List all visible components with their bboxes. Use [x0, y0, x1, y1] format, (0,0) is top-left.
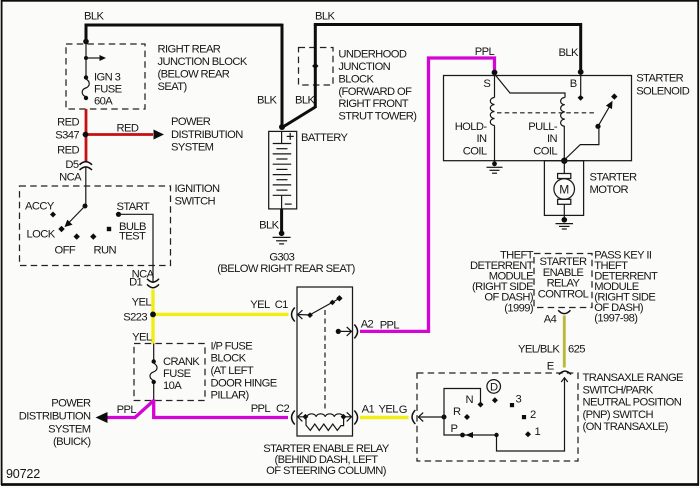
node S terminal	[483, 70, 497, 90]
svg-text:PILLAR): PILLAR)	[211, 390, 250, 402]
svg-text:R: R	[453, 406, 461, 418]
svg-text:(1997-98): (1997-98)	[594, 312, 638, 324]
PNP switch dashed box	[417, 373, 578, 461]
wire YEL from S223 to relay C1	[153, 313, 289, 316]
svg-text:SWITCH/PARK: SWITCH/PARK	[583, 384, 654, 396]
svg-text:A2: A2	[361, 318, 374, 330]
svg-text:N: N	[466, 394, 474, 406]
svg-text:G: G	[399, 404, 407, 416]
underhood junction block dashed box	[299, 48, 334, 86]
relay switch lever	[311, 299, 340, 315]
wire BLK battery to ground	[280, 209, 283, 232]
wire BLK top left horizontal and down to junction block	[86, 25, 282, 42]
node branch dot in junction block	[84, 56, 88, 60]
svg-text:BLK: BLK	[84, 10, 104, 22]
label IGN 3 FUSE 60A	[94, 72, 122, 108]
fuse CRANK FUSE 10A	[150, 344, 157, 401]
svg-text:DOOR HINGE: DOOR HINGE	[211, 377, 277, 389]
ignition switch lever	[65, 204, 88, 228]
svg-text:PPL: PPL	[475, 46, 495, 58]
starter enable relay box	[297, 287, 353, 436]
svg-text:YEL/BLK: YEL/BLK	[518, 343, 560, 355]
svg-text:TEST: TEST	[119, 231, 146, 243]
contact N	[478, 402, 484, 408]
svg-text:G303: G303	[269, 251, 294, 263]
svg-text:IN: IN	[547, 133, 558, 145]
label STARTER ENABLE RELAY CONTROL	[538, 256, 589, 301]
connector D1	[129, 276, 159, 288]
starter solenoid box	[444, 76, 632, 161]
label BULB TEST	[119, 221, 146, 243]
svg-text:LOCK: LOCK	[27, 229, 56, 241]
label RIGHT REAR JUNCTION BLOCK (BELOW REAR SEAT)	[158, 44, 248, 94]
svg-text:B: B	[570, 78, 577, 90]
wire PPL from relay A2 up and over to solenoid S	[360, 58, 495, 331]
svg-text:CONTROL: CONTROL	[538, 288, 589, 300]
svg-text:NEUTRAL POSITION: NEUTRAL POSITION	[583, 397, 682, 409]
svg-text:RIGHT REAR: RIGHT REAR	[158, 44, 221, 56]
fuse IGN 3 FUSE 60A	[82, 75, 89, 100]
hold-in coil	[490, 74, 494, 161]
svg-text:PPL: PPL	[117, 404, 137, 416]
relay coil arrow at C2	[298, 412, 303, 421]
svg-text:MOTOR: MOTOR	[590, 184, 629, 196]
svg-text:OFF: OFF	[55, 245, 76, 257]
svg-text:SYSTEM: SYSTEM	[171, 141, 214, 153]
svg-text:DISTRIBUTION: DISTRIBUTION	[19, 411, 91, 423]
dashed linkage line in solenoid	[497, 112, 597, 114]
relay switch contact mid	[330, 300, 336, 306]
label YEL/BLK 625	[518, 343, 585, 355]
svg-text:CRANK: CRANK	[163, 356, 200, 368]
label CRANK FUSE 10A	[163, 356, 200, 392]
connector A1	[354, 411, 357, 425]
svg-text:TRANSAXLE RANGE: TRANSAXLE RANGE	[583, 372, 684, 384]
label G303 (BELOW RIGHT REAR SEAT)	[217, 251, 355, 275]
svg-text:OF STEERING COLUMN): OF STEERING COLUMN)	[266, 465, 387, 477]
svg-text:P: P	[451, 423, 458, 435]
relay coil resistor	[306, 418, 344, 430]
svg-text:YEL: YEL	[132, 297, 152, 309]
svg-text:A4: A4	[544, 314, 557, 326]
svg-text:S: S	[483, 78, 490, 90]
wire YEL from S223 down to crank fuse	[151, 314, 154, 343]
svg-text:S223: S223	[123, 312, 147, 324]
wire BLK battery feed vertical from top wire to battery	[281, 24, 284, 128]
svg-text:I/P FUSE: I/P FUSE	[211, 340, 253, 352]
svg-text:YEL: YEL	[250, 299, 270, 311]
node S223	[123, 312, 147, 324]
contact OFF	[74, 233, 80, 239]
svg-text:BLK: BLK	[315, 10, 335, 22]
svg-text:PULL-: PULL-	[528, 121, 558, 133]
ground below starter motor	[556, 217, 574, 229]
wire B to switch contact	[580, 74, 582, 95]
label POWER DISTRIBUTION SYSTEM (BUICK)	[19, 398, 92, 449]
wire from S to pull-in coil	[495, 74, 566, 98]
svg-text:(BELOW RIGHT REAR SEAT): (BELOW RIGHT REAR SEAT)	[217, 263, 355, 275]
svg-text:(ON TRANSAXLE): (ON TRANSAXLE)	[583, 421, 669, 433]
dashed linkage in relay	[324, 310, 326, 412]
label A1 YEL G	[362, 403, 407, 416]
relay coil left contact	[303, 414, 309, 420]
svg-text:(BELOW REAR: (BELOW REAR	[158, 69, 230, 81]
svg-text:BLK: BLK	[559, 47, 579, 59]
svg-text:RIGHT FRONT: RIGHT FRONT	[338, 98, 408, 110]
svg-text:BATTERY: BATTERY	[301, 132, 348, 144]
contact START	[116, 212, 121, 217]
label TRANSAXLE RANGE SWITCH/PARK NEUTRAL POSITION (PNP) SWITCH (ON TRANSAXLE)	[583, 372, 684, 433]
label STARTER ENABLE RELAY (BEHIND DASH, LEFT OF STEERING COLUMN)	[263, 443, 390, 477]
svg-text:ACCY: ACCY	[25, 200, 55, 212]
svg-text:RED: RED	[117, 123, 139, 135]
svg-text:BLOCK: BLOCK	[211, 353, 247, 365]
node junction above battery	[279, 124, 285, 130]
contact D	[492, 397, 498, 403]
connector G	[412, 410, 415, 424]
wire BLK through underhood junction block down to battery	[282, 25, 315, 128]
relay switch contact end	[336, 295, 342, 301]
svg-text:UNDERHOOD: UNDERHOOD	[338, 49, 406, 61]
svg-text:625: 625	[568, 343, 585, 355]
node contact in underhood junction block	[312, 63, 318, 69]
svg-text:D1: D1	[129, 276, 142, 288]
wire YEL from D1 to S223	[151, 290, 154, 315]
contact P wiper arrow	[460, 432, 473, 438]
wire from START contact down to D1	[119, 214, 154, 283]
svg-text:C2: C2	[276, 403, 289, 415]
svg-text:10A: 10A	[163, 380, 182, 392]
solenoid switch lever with arrow	[595, 101, 612, 129]
svg-text:SEAT): SEAT)	[158, 81, 188, 93]
label IGNITION SWITCH	[175, 183, 220, 208]
svg-text:SWITCH: SWITCH	[175, 196, 216, 208]
ground G303	[273, 231, 291, 244]
junction block internal wire down to fuse	[85, 42, 87, 78]
relay switch contact near C1	[307, 312, 313, 318]
wire RED branch to power distribution system	[88, 130, 164, 140]
arrow to E inside PNP box	[561, 378, 568, 382]
node G junction on PNP ladder	[442, 415, 447, 420]
label PASS KEY II THEFT DETERRENT MODULE (RIGHT SIDE OF DASH) (1997-98)	[594, 249, 658, 324]
wire from switch pivot to motor node	[564, 126, 599, 160]
node B terminal	[570, 69, 584, 90]
ground below hold-in coil	[487, 161, 503, 174]
svg-text:SYSTEM: SYSTEM	[48, 424, 91, 436]
svg-text:A1: A1	[362, 403, 375, 415]
svg-text:D: D	[490, 382, 498, 394]
label POWER DISTRIBUTION SYSTEM	[171, 116, 243, 153]
pull-in coil	[561, 98, 565, 161]
contact LOCK	[58, 226, 64, 232]
svg-text:JUNCTION BLOCK: JUNCTION BLOCK	[158, 56, 248, 68]
wire PPL from crank fuse to relay C2	[154, 400, 288, 418]
svg-text:M: M	[559, 183, 569, 197]
contact 2	[522, 415, 526, 419]
wire BLK top right horizontal from underhood JB to solenoid B	[315, 25, 580, 73]
svg-text:STARTER: STARTER	[590, 171, 637, 183]
svg-text:BLOCK: BLOCK	[338, 73, 374, 85]
starter motor box	[544, 161, 583, 216]
svg-text:C1: C1	[275, 299, 288, 311]
contact BULB TEST	[107, 227, 111, 231]
contact R	[464, 414, 470, 420]
svg-text:POWER: POWER	[171, 116, 211, 128]
contact below B	[578, 95, 584, 101]
contact RUN	[90, 233, 96, 239]
wire PPL branch to power distribution (buick)	[96, 401, 154, 424]
svg-text:NCA: NCA	[59, 171, 82, 183]
svg-text:COIL: COIL	[533, 146, 557, 158]
svg-text:(1999): (1999)	[504, 302, 534, 314]
svg-text:RUN: RUN	[94, 245, 117, 257]
svg-text:HOLD-: HOLD-	[455, 121, 488, 133]
svg-text:RED: RED	[57, 145, 79, 157]
svg-text:(FORWARD OF: (FORWARD OF	[338, 86, 412, 98]
connector A2	[354, 325, 357, 339]
svg-text:BLK: BLK	[295, 94, 315, 106]
node S223 junction dot	[150, 312, 156, 318]
connector A4	[544, 310, 571, 325]
svg-text:SOLENOID: SOLENOID	[636, 85, 690, 97]
label A2 PPL	[361, 318, 400, 331]
label UNDERHOOD JUNCTION BLOCK (FORWARD OF RIGHT FRONT STRUT TOWER)	[338, 49, 417, 123]
wire G entry with arrow	[418, 413, 444, 422]
contact 1	[525, 431, 531, 437]
connector C2	[292, 411, 295, 425]
node junction dot above right rear junction block	[83, 39, 89, 45]
PNP inner ladder top	[444, 389, 481, 418]
svg-text:D5: D5	[65, 159, 78, 171]
svg-text:IGN 3: IGN 3	[94, 72, 121, 84]
node S347	[55, 129, 79, 141]
svg-text:YEL: YEL	[379, 403, 399, 415]
svg-text:YEL: YEL	[132, 332, 152, 344]
node pull-in coil and motor junction	[561, 158, 567, 164]
connector C1	[292, 308, 295, 322]
right rear junction block dashed box	[66, 44, 145, 109]
connector D5	[65, 159, 92, 171]
wire YEL/BLK from A4 to E	[563, 316, 566, 368]
node S347 junction dot	[83, 132, 89, 138]
wire YEL relay A1 to PNP G	[360, 416, 409, 419]
svg-text:POWER: POWER	[51, 398, 91, 410]
PNP inner ladder bottom	[444, 378, 565, 451]
connector E	[547, 360, 571, 374]
label THEFT DETERRENT MODULE (RIGHT SIDE OF DASH) (1999)	[470, 249, 534, 314]
svg-text:1: 1	[535, 426, 541, 438]
label D circled	[487, 380, 501, 394]
svg-text:COIL: COIL	[463, 146, 487, 158]
battery	[269, 131, 297, 209]
label YEL C1	[250, 299, 288, 311]
relay switch arrow at C1	[298, 310, 308, 319]
svg-text:(AT LEFT: (AT LEFT	[211, 365, 254, 377]
wire branch arrow right inside junction block	[86, 55, 106, 61]
svg-text:E: E	[547, 360, 554, 372]
svg-text:PPL: PPL	[380, 319, 400, 331]
wire RED from junction block to S347 to D5	[85, 109, 88, 161]
svg-text:STARTER: STARTER	[636, 73, 683, 85]
contact ACCY	[50, 212, 56, 218]
starter motor symbol	[554, 161, 575, 219]
svg-text:DISTRIBUTION: DISTRIBUTION	[171, 129, 243, 141]
label I/P FUSE BLOCK (AT LEFT DOOR HINGE PILLAR)	[211, 340, 277, 401]
relay A2 contact and arrow	[336, 327, 352, 336]
wire from D5 into ignition switch	[85, 168, 87, 207]
label STARTER MOTOR	[590, 171, 637, 196]
relay coil arrow at A1	[344, 412, 352, 421]
svg-text:(PNP) SWITCH: (PNP) SWITCH	[583, 409, 654, 421]
svg-text:JUNCTION: JUNCTION	[338, 61, 390, 73]
starter enable relay control dashed box	[534, 254, 592, 308]
label HOLD-IN COIL	[455, 121, 488, 157]
svg-text:90722: 90722	[6, 467, 40, 481]
svg-text:BLK: BLK	[257, 94, 277, 106]
svg-text:FUSE: FUSE	[94, 84, 122, 96]
relay coil right contact	[341, 414, 347, 420]
I/P fuse block dashed box	[134, 344, 205, 401]
svg-text:2: 2	[530, 409, 536, 421]
svg-text:3: 3	[516, 394, 522, 406]
ignition switch dashed box	[20, 186, 171, 266]
svg-text:PPL: PPL	[251, 403, 271, 415]
label PPL C2	[251, 403, 290, 415]
svg-text:START: START	[117, 201, 150, 213]
svg-text:IN: IN	[477, 133, 488, 145]
contact solenoid switch fixed	[611, 93, 617, 99]
relay coil	[298, 414, 344, 417]
svg-text:(BUICK): (BUICK)	[53, 436, 91, 448]
label STARTER SOLENOID	[636, 73, 690, 98]
svg-text:FUSE: FUSE	[163, 368, 191, 380]
node corner dot on ladder	[494, 433, 498, 437]
svg-text:BLK: BLK	[259, 220, 279, 232]
svg-text:STRUT TOWER): STRUT TOWER)	[338, 111, 417, 123]
svg-text:60A: 60A	[94, 96, 113, 108]
svg-text:S347: S347	[55, 129, 79, 141]
contact 3	[510, 403, 514, 407]
svg-text:IGNITION: IGNITION	[175, 183, 220, 195]
svg-text:RED: RED	[57, 116, 79, 128]
label PULL-IN COIL	[528, 121, 558, 157]
